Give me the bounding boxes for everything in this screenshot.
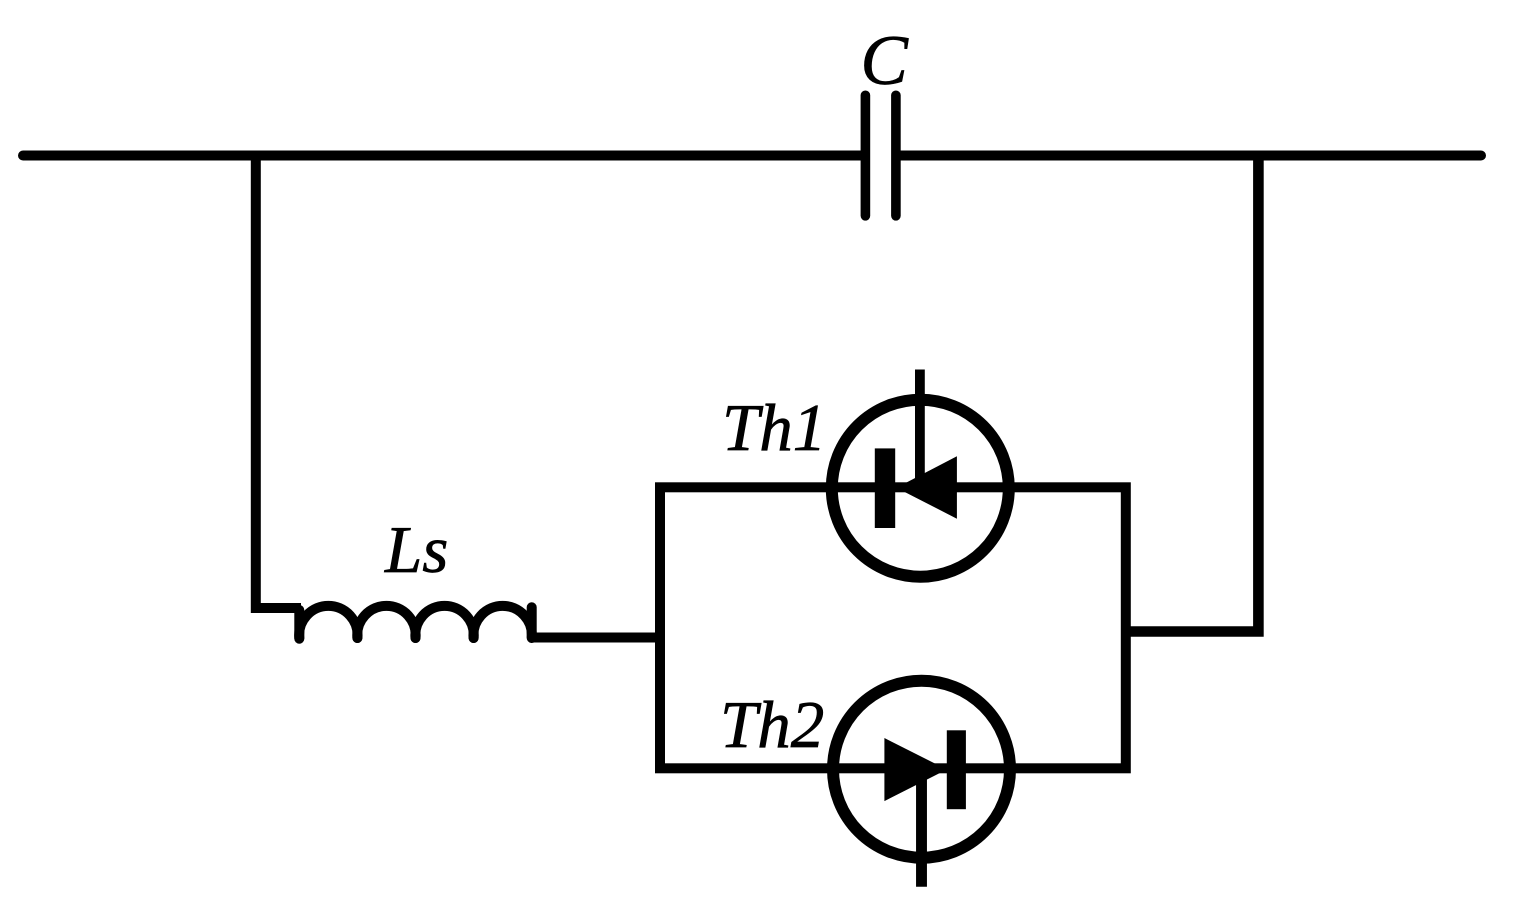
svg-text:C: C [861, 22, 910, 100]
svg-text:Th2: Th2 [720, 688, 824, 762]
svg-text:Th1: Th1 [722, 391, 826, 465]
svg-text:Ls: Ls [384, 513, 448, 587]
